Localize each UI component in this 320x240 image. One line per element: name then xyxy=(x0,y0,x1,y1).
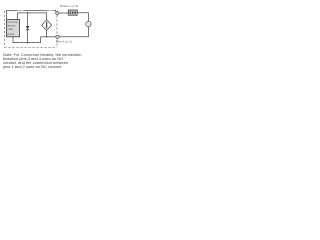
svg-text:Blue 4 (or 2): Blue 4 (or 2) xyxy=(56,39,72,43)
wire: enclosure-top solid segment xyxy=(24,9,47,11)
proximity sensor main circuit box U1 xyxy=(7,20,20,37)
wire: internal top rail (box to bridge) xyxy=(18,13,47,20)
power supply source V1 xyxy=(86,21,91,26)
svg-text:main: main xyxy=(7,27,13,31)
load box hatch marks xyxy=(70,12,76,14)
svg-text:Brown 1 (or 3): Brown 1 (or 3) xyxy=(60,4,78,8)
wire: bottom rail xyxy=(41,36,56,38)
wire: box bottom to lower run and up to bottom rail xyxy=(13,37,41,43)
diode D1 triangle xyxy=(26,26,30,30)
terminal node: Brown pin xyxy=(55,11,59,15)
wire: load to supply xyxy=(77,13,88,22)
label: main circuit box text xyxy=(7,20,18,36)
diode D1 cathode bar xyxy=(26,29,30,31)
bridge inner bar xyxy=(46,22,48,29)
wire: bridge bottom riser xyxy=(46,30,48,36)
wire: node to load xyxy=(59,12,68,14)
svg-text:circuit: circuit xyxy=(7,32,14,36)
wire: diode cathode lead xyxy=(27,30,29,43)
terminal node: Blue pin xyxy=(56,35,59,38)
junction dot: bottom rail xyxy=(46,36,48,38)
supply sine mark xyxy=(87,23,90,26)
svg-text:Proximity: Proximity xyxy=(7,20,18,24)
diode bridge diamond B1 xyxy=(42,20,52,31)
wire: diode anode lead xyxy=(27,13,29,26)
svg-text:Sensor: Sensor xyxy=(7,24,15,28)
junction dot: diode tap on top rail xyxy=(27,12,29,14)
junction dot: diode bottom xyxy=(27,42,29,44)
wire: bottom rail to supply xyxy=(59,27,88,37)
sensor enclosure dashed boundary xyxy=(4,10,57,47)
wire: top-left corner down to main circuit box xyxy=(7,10,18,19)
load box RL xyxy=(68,10,77,15)
wire: top terminal drop xyxy=(54,10,56,12)
note text xyxy=(3,53,82,69)
